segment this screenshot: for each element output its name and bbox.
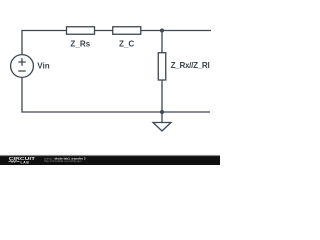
node junction bottom bbox=[160, 110, 164, 114]
voltage source Vin bbox=[11, 55, 34, 78]
CircuitLab logo resistor zigzag bbox=[9, 161, 20, 163]
svg-text:Z_Rx//Z_Rl: Z_Rx//Z_Rl bbox=[171, 61, 210, 70]
node junction top bbox=[160, 29, 164, 33]
svg-text:http://circuitlab.com/c9kyqun: http://circuitlab.com/c9kyqun bbox=[44, 159, 82, 163]
svg-text:Vin: Vin bbox=[37, 61, 50, 70]
wire: junction down to Z_Rx//Z_Rl bbox=[161, 31, 163, 53]
capacitor impedance Z_C bbox=[113, 27, 141, 35]
ground bbox=[153, 123, 171, 132]
wire: source bottom to bottom rail and bottom rail bbox=[22, 77, 210, 112]
svg-text:Z_Rs: Z_Rs bbox=[70, 40, 90, 49]
wire: between Z_Rs and Z_C bbox=[95, 30, 113, 32]
wire: ground stub bbox=[161, 112, 163, 123]
wire: top rail left segment (source to Z_Rs) bbox=[22, 31, 67, 55]
svg-text:Z_C: Z_C bbox=[119, 40, 134, 49]
resistor Z_Rs bbox=[67, 27, 95, 35]
minus sign of Vin bbox=[18, 70, 25, 72]
wire: Z_C to right open end bbox=[141, 30, 211, 32]
svg-text:LAB: LAB bbox=[21, 160, 30, 164]
wire: Z_Rx//Z_Rl down to bottom rail bbox=[161, 80, 163, 112]
resistor Z_Rx//Z_Rl bbox=[158, 53, 166, 80]
plus sign of Vin bbox=[18, 58, 25, 65]
